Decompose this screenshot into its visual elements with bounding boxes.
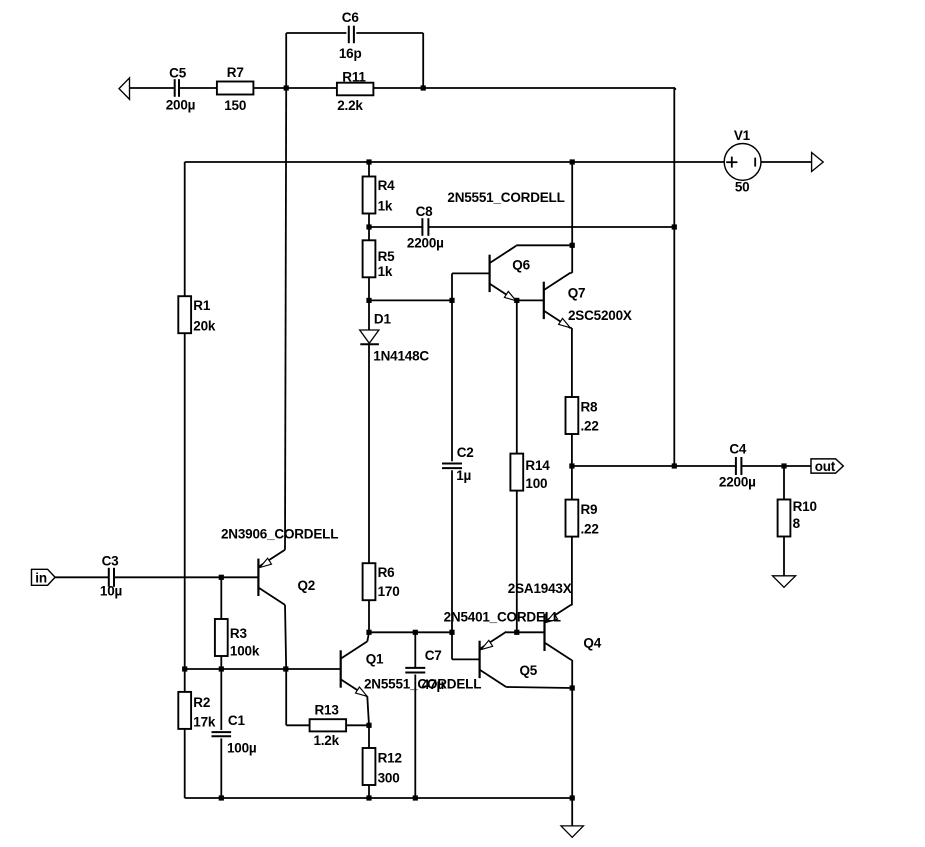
svg-text:150: 150 [224, 98, 246, 113]
svg-text:1k: 1k [378, 199, 393, 214]
svg-text:1k: 1k [378, 264, 393, 279]
svg-text:C6: C6 [342, 10, 360, 25]
svg-text:Q7: Q7 [568, 285, 586, 300]
svg-text:47µ: 47µ [422, 677, 444, 692]
svg-text:out: out [815, 459, 836, 474]
svg-text:1µ: 1µ [456, 468, 471, 483]
svg-text:20k: 20k [193, 318, 216, 333]
svg-text:8: 8 [793, 516, 801, 531]
svg-text:in: in [35, 571, 47, 586]
svg-text:Q1: Q1 [366, 651, 384, 666]
svg-text:Q2: Q2 [298, 578, 316, 593]
svg-text:R4: R4 [378, 178, 396, 193]
svg-text:C5: C5 [169, 65, 187, 80]
svg-text:170: 170 [378, 584, 400, 599]
svg-text:17k: 17k [193, 715, 216, 730]
svg-text:C8: C8 [416, 204, 434, 219]
svg-text:R11: R11 [342, 70, 366, 85]
svg-text:300: 300 [378, 770, 400, 785]
svg-text:1N4148C: 1N4148C [373, 348, 429, 363]
svg-text:200µ: 200µ [166, 98, 196, 113]
svg-text:Q6: Q6 [512, 258, 530, 273]
svg-text:R13: R13 [315, 703, 340, 718]
svg-text:R5: R5 [378, 249, 396, 264]
svg-text:2SA1943X: 2SA1943X [508, 581, 572, 596]
svg-text:C7: C7 [425, 648, 442, 663]
svg-text:R9: R9 [581, 502, 598, 517]
svg-text:10µ: 10µ [100, 583, 122, 598]
svg-text:R8: R8 [581, 399, 599, 414]
svg-text:100k: 100k [230, 644, 260, 659]
svg-text:R7: R7 [227, 65, 244, 80]
svg-text:50: 50 [735, 180, 750, 195]
svg-text:.22: .22 [581, 418, 599, 433]
svg-text:R2: R2 [193, 695, 210, 710]
svg-text:100: 100 [525, 476, 547, 491]
svg-text:V1: V1 [734, 128, 751, 143]
svg-text:Q4: Q4 [583, 636, 601, 651]
svg-text:R3: R3 [230, 626, 248, 641]
svg-text:R6: R6 [378, 565, 396, 580]
svg-text:R1: R1 [193, 298, 211, 313]
svg-text:C4: C4 [729, 441, 747, 456]
svg-text:C1: C1 [228, 713, 246, 728]
svg-text:100µ: 100µ [227, 740, 257, 755]
svg-text:16p: 16p [339, 46, 362, 61]
svg-text:2N3906_CORDELL: 2N3906_CORDELL [221, 527, 338, 542]
svg-text:.22: .22 [581, 522, 599, 537]
svg-text:2N5551_CORDELL: 2N5551_CORDELL [447, 190, 564, 205]
svg-text:2.2k: 2.2k [337, 98, 363, 113]
svg-text:2200µ: 2200µ [407, 236, 444, 251]
svg-text:C3: C3 [102, 553, 120, 568]
svg-text:2200µ: 2200µ [719, 475, 756, 490]
svg-text:C2: C2 [457, 445, 474, 460]
svg-text:R14: R14 [525, 458, 550, 473]
svg-text:Q5: Q5 [520, 663, 538, 678]
svg-text:2SC5200X: 2SC5200X [568, 308, 632, 323]
svg-text:2N5401_CORDELL: 2N5401_CORDELL [444, 609, 561, 624]
svg-text:1.2k: 1.2k [313, 733, 339, 748]
svg-text:R10: R10 [793, 499, 817, 514]
svg-text:D1: D1 [374, 311, 392, 326]
svg-text:R12: R12 [378, 750, 402, 765]
